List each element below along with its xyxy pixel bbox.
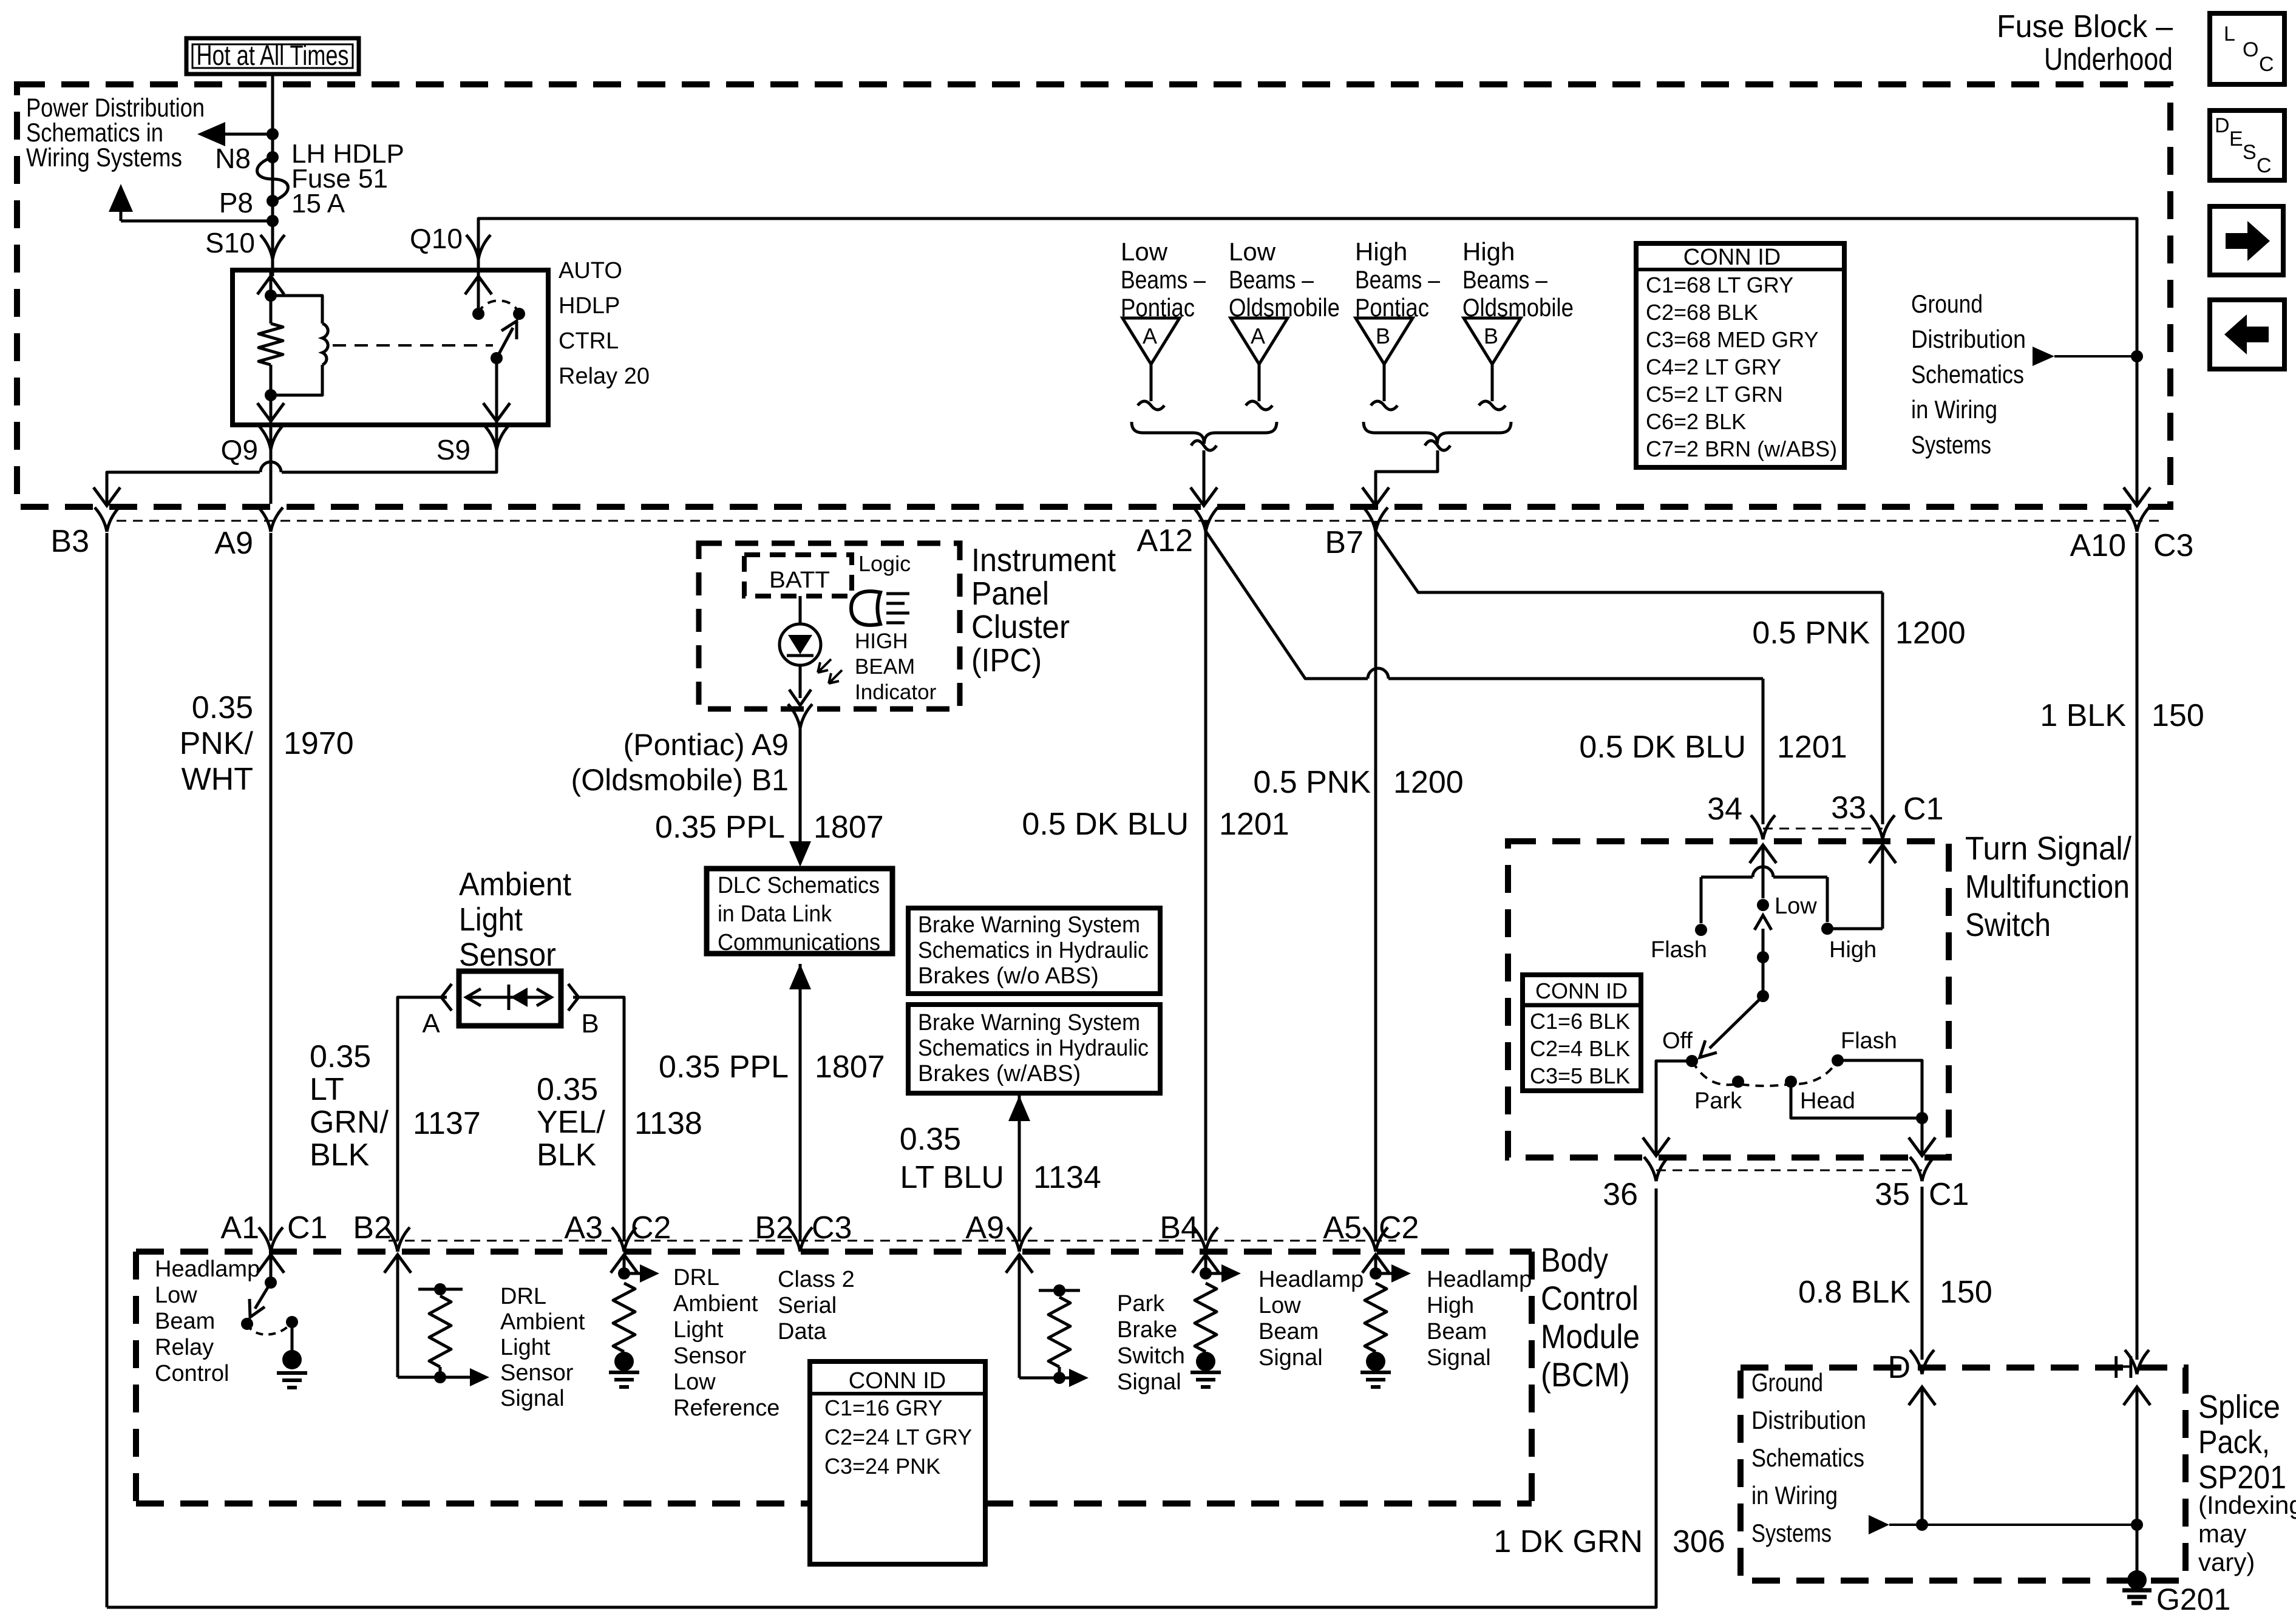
svg-text:1200: 1200 <box>1393 765 1464 800</box>
svg-text:SP201: SP201 <box>2198 1459 2286 1496</box>
svg-text:A: A <box>422 1009 440 1039</box>
svg-text:Sensor: Sensor <box>500 1360 574 1386</box>
svg-text:Distribution: Distribution <box>1911 325 2026 353</box>
svg-text:A: A <box>1251 324 1265 348</box>
svg-text:Oldsmobile: Oldsmobile <box>1229 293 1340 322</box>
svg-text:E: E <box>2229 127 2243 151</box>
svg-text:H: H <box>2112 1350 2135 1385</box>
svg-text:Pontiac: Pontiac <box>1121 293 1195 322</box>
svg-text:Signal: Signal <box>1117 1369 1181 1395</box>
svg-text:1138: 1138 <box>634 1106 702 1141</box>
svg-text:AUTO: AUTO <box>559 258 622 283</box>
svg-text:Systems: Systems <box>1751 1519 1832 1547</box>
svg-text:A: A <box>1143 324 1157 348</box>
svg-text:Switch: Switch <box>1965 907 2051 943</box>
svg-text:C4=2 LT GRY: C4=2 LT GRY <box>1646 354 1781 379</box>
svg-text:Beam: Beam <box>1258 1319 1319 1344</box>
svg-text:15 A: 15 A <box>291 189 345 219</box>
svg-text:P8: P8 <box>219 187 253 219</box>
svg-text:(Oldsmobile) B1: (Oldsmobile) B1 <box>571 763 789 797</box>
svg-text:CTRL: CTRL <box>559 328 619 354</box>
svg-text:N8: N8 <box>215 143 251 174</box>
svg-text:S10: S10 <box>205 227 255 259</box>
svg-text:HIGH: HIGH <box>855 629 908 653</box>
svg-text:Ambient: Ambient <box>500 1309 585 1335</box>
svg-text:A10: A10 <box>2070 528 2126 563</box>
svg-text:C1: C1 <box>1929 1177 1969 1212</box>
svg-text:Wiring Systems: Wiring Systems <box>26 143 182 172</box>
svg-text:C3: C3 <box>812 1210 852 1246</box>
svg-text:36: 36 <box>1603 1177 1638 1212</box>
svg-text:Beams –: Beams – <box>1462 265 1548 294</box>
svg-text:A9: A9 <box>965 1210 1004 1246</box>
svg-text:1200: 1200 <box>1895 615 1966 651</box>
svg-text:Ambient: Ambient <box>673 1291 758 1317</box>
svg-text:C1=16 GRY: C1=16 GRY <box>824 1395 942 1420</box>
svg-text:(BCM): (BCM) <box>1541 1355 1630 1394</box>
svg-text:Brake: Brake <box>1117 1317 1177 1343</box>
svg-text:Flash: Flash <box>1841 1028 1897 1054</box>
svg-text:1201: 1201 <box>1777 730 1847 765</box>
svg-text:1970: 1970 <box>284 726 354 761</box>
svg-text:BEAM: BEAM <box>855 655 915 679</box>
svg-text:Switch: Switch <box>1117 1343 1185 1369</box>
svg-text:Cluster: Cluster <box>971 609 1070 645</box>
svg-text:C2=68 BLK: C2=68 BLK <box>1646 300 1758 325</box>
svg-text:Beams –: Beams – <box>1355 265 1441 294</box>
svg-text:0.35: 0.35 <box>537 1072 598 1107</box>
svg-text:Instrument: Instrument <box>971 542 1116 578</box>
svg-text:High: High <box>1427 1293 1474 1318</box>
svg-text:0.35: 0.35 <box>310 1039 371 1074</box>
svg-text:High: High <box>1462 237 1515 266</box>
svg-text:Control: Control <box>155 1361 229 1386</box>
svg-text:33: 33 <box>1831 790 1866 825</box>
svg-text:Underhood: Underhood <box>2044 42 2173 77</box>
svg-text:Relay 20: Relay 20 <box>559 364 650 389</box>
svg-text:A12: A12 <box>1136 523 1193 558</box>
svg-text:Beam: Beam <box>155 1309 215 1334</box>
svg-text:A3: A3 <box>564 1210 603 1246</box>
svg-text:in Wiring: in Wiring <box>1911 395 1997 424</box>
svg-text:BLK: BLK <box>537 1137 597 1173</box>
svg-text:Schematics in Hydraulic: Schematics in Hydraulic <box>918 1036 1149 1061</box>
svg-text:Headlamp: Headlamp <box>1258 1267 1364 1292</box>
svg-text:0.5 DK BLU: 0.5 DK BLU <box>1579 730 1746 765</box>
svg-text:vary): vary) <box>2198 1548 2255 1576</box>
svg-text:Brakes (w/o ABS): Brakes (w/o ABS) <box>918 963 1099 989</box>
svg-text:LT BLU: LT BLU <box>900 1160 1005 1195</box>
svg-text:Control: Control <box>1541 1279 1639 1317</box>
svg-text:(Pontiac) A9: (Pontiac) A9 <box>623 728 789 762</box>
svg-text:Beams –: Beams – <box>1229 265 1314 294</box>
svg-text:C3=5 BLK: C3=5 BLK <box>1530 1063 1630 1088</box>
svg-text:HDLP: HDLP <box>559 293 620 319</box>
svg-text:A1: A1 <box>220 1210 259 1246</box>
svg-text:C7=2 BRN (w/ABS): C7=2 BRN (w/ABS) <box>1646 436 1837 461</box>
svg-text:Reference: Reference <box>673 1395 779 1421</box>
svg-text:Oldsmobile: Oldsmobile <box>1462 293 1574 322</box>
svg-text:Low: Low <box>1229 237 1276 266</box>
svg-text:C3: C3 <box>2153 528 2193 563</box>
svg-text:Light: Light <box>673 1317 724 1343</box>
svg-text:B4: B4 <box>1160 1210 1198 1246</box>
svg-text:Systems: Systems <box>1911 430 1991 459</box>
svg-text:C3=24 PNK: C3=24 PNK <box>824 1454 940 1479</box>
svg-text:Low: Low <box>673 1369 716 1395</box>
svg-text:Q9: Q9 <box>221 434 258 466</box>
svg-text:Splice: Splice <box>2198 1389 2280 1425</box>
svg-text:LT: LT <box>310 1072 344 1107</box>
svg-text:Data: Data <box>778 1319 827 1344</box>
svg-text:Q10: Q10 <box>410 223 463 254</box>
svg-text:DRL: DRL <box>500 1284 546 1309</box>
svg-text:High: High <box>1355 237 1407 266</box>
svg-text:Head: Head <box>1800 1088 1855 1114</box>
svg-text:Park: Park <box>1694 1088 1742 1114</box>
svg-text:Low: Low <box>1775 893 1817 919</box>
svg-text:306: 306 <box>1673 1524 1725 1559</box>
svg-text:High: High <box>1829 937 1877 963</box>
svg-text:Ambient: Ambient <box>459 866 571 903</box>
svg-text:Pontiac: Pontiac <box>1355 293 1429 322</box>
svg-text:CONN ID: CONN ID <box>849 1368 946 1394</box>
svg-text:GRN/: GRN/ <box>310 1105 389 1140</box>
svg-text:D: D <box>1887 1350 1911 1385</box>
svg-text:in Data Link: in Data Link <box>718 901 832 927</box>
svg-text:L: L <box>2224 22 2235 46</box>
svg-text:Signal: Signal <box>500 1386 565 1411</box>
svg-text:Indicator: Indicator <box>855 680 937 704</box>
svg-text:Ground: Ground <box>1751 1368 1823 1397</box>
svg-text:1 BLK: 1 BLK <box>2040 698 2126 733</box>
svg-text:A9: A9 <box>214 526 253 561</box>
svg-text:C1: C1 <box>1903 792 1943 827</box>
svg-text:Beam: Beam <box>1427 1319 1487 1344</box>
svg-text:BLK: BLK <box>310 1137 370 1173</box>
svg-text:BATT: BATT <box>769 568 830 593</box>
svg-text:DRL: DRL <box>673 1265 719 1290</box>
svg-text:Brakes (w/ABS): Brakes (w/ABS) <box>918 1061 1081 1086</box>
svg-text:1201: 1201 <box>1219 807 1289 842</box>
svg-text:Park: Park <box>1117 1291 1165 1317</box>
svg-text:0.5 DK BLU: 0.5 DK BLU <box>1022 807 1189 842</box>
svg-text:150: 150 <box>2152 698 2204 733</box>
svg-text:C1=6 BLK: C1=6 BLK <box>1530 1009 1630 1034</box>
svg-text:Sensor: Sensor <box>459 937 556 973</box>
svg-text:D: D <box>2215 114 2230 137</box>
svg-text:0.5 PNK: 0.5 PNK <box>1752 615 1870 651</box>
svg-text:C: C <box>2257 154 2272 177</box>
svg-text:0.35 PPL: 0.35 PPL <box>659 1049 789 1085</box>
svg-text:Schematics: Schematics <box>1751 1443 1864 1472</box>
svg-text:150: 150 <box>1940 1275 1992 1310</box>
svg-text:Serial: Serial <box>778 1293 837 1318</box>
svg-text:B3: B3 <box>50 524 89 559</box>
svg-text:Body: Body <box>1541 1241 1608 1279</box>
svg-text:1807: 1807 <box>813 810 884 845</box>
svg-text:A5: A5 <box>1323 1210 1362 1246</box>
svg-text:Schematics in Hydraulic: Schematics in Hydraulic <box>918 938 1149 963</box>
svg-text:C2=4 BLK: C2=4 BLK <box>1530 1036 1630 1061</box>
svg-text:B7: B7 <box>1325 525 1364 560</box>
svg-text:0.8 BLK: 0.8 BLK <box>1798 1275 1911 1310</box>
svg-text:1807: 1807 <box>815 1049 885 1085</box>
svg-text:S: S <box>2243 141 2257 164</box>
svg-text:34: 34 <box>1707 792 1742 827</box>
svg-text:Communications: Communications <box>718 930 880 955</box>
svg-text:(IPC): (IPC) <box>971 642 1042 679</box>
svg-text:CONN ID: CONN ID <box>1683 245 1781 270</box>
svg-text:B: B <box>1484 324 1498 348</box>
svg-text:C1=68 LT GRY: C1=68 LT GRY <box>1646 273 1793 297</box>
svg-text:Logic: Logic <box>858 551 911 576</box>
svg-text:Off: Off <box>1662 1028 1693 1054</box>
svg-text:CONN ID: CONN ID <box>1535 978 1628 1003</box>
svg-text:Low: Low <box>155 1283 197 1308</box>
svg-text:Relay: Relay <box>155 1335 214 1360</box>
svg-text:Low: Low <box>1258 1293 1301 1318</box>
svg-text:Fuse Block –: Fuse Block – <box>1997 9 2173 44</box>
svg-text:Beams –: Beams – <box>1121 265 1206 294</box>
svg-text:Ground: Ground <box>1911 290 1983 318</box>
svg-text:C2=24 LT GRY: C2=24 LT GRY <box>824 1425 972 1449</box>
svg-text:C5=2 LT GRN: C5=2 LT GRN <box>1646 382 1783 407</box>
svg-text:Signal: Signal <box>1427 1345 1491 1371</box>
svg-text:Panel: Panel <box>971 575 1049 612</box>
svg-text:PNK/: PNK/ <box>180 726 254 761</box>
svg-text:O: O <box>2243 38 2258 61</box>
svg-text:B: B <box>1376 324 1390 348</box>
svg-text:S9: S9 <box>436 434 470 466</box>
svg-text:DLC Schematics: DLC Schematics <box>718 873 880 898</box>
svg-text:Headlamp: Headlamp <box>1427 1267 1532 1292</box>
svg-text:Signal: Signal <box>1258 1345 1323 1371</box>
svg-text:0.35 PPL: 0.35 PPL <box>655 810 785 845</box>
svg-text:(Indexing: (Indexing <box>2198 1491 2296 1519</box>
svg-text:Turn Signal/: Turn Signal/ <box>1965 830 2131 867</box>
svg-text:Class 2: Class 2 <box>778 1267 855 1292</box>
svg-text:1137: 1137 <box>413 1106 481 1141</box>
svg-text:Sensor: Sensor <box>673 1343 747 1369</box>
svg-text:0.35: 0.35 <box>192 690 253 725</box>
svg-text:Schematics: Schematics <box>1911 360 2024 388</box>
svg-text:Hot at All Times: Hot at All Times <box>197 39 349 71</box>
svg-text:0.35: 0.35 <box>900 1122 961 1157</box>
svg-text:Brake Warning System: Brake Warning System <box>918 1010 1140 1036</box>
svg-text:C3=68 MED GRY: C3=68 MED GRY <box>1646 327 1818 352</box>
svg-text:may: may <box>2198 1519 2246 1548</box>
svg-text:C: C <box>2259 53 2274 76</box>
svg-text:WHT: WHT <box>182 762 253 797</box>
svg-text:35: 35 <box>1875 1177 1910 1212</box>
svg-text:0.5 PNK: 0.5 PNK <box>1253 765 1371 800</box>
svg-text:Light: Light <box>459 901 523 938</box>
svg-text:Distribution: Distribution <box>1751 1406 1866 1434</box>
svg-text:G201: G201 <box>2156 1582 2230 1616</box>
svg-text:Headlamp: Headlamp <box>155 1256 260 1282</box>
svg-text:Module: Module <box>1541 1317 1640 1355</box>
svg-text:1 DK GRN: 1 DK GRN <box>1493 1524 1643 1559</box>
svg-text:Pack,: Pack, <box>2198 1424 2270 1460</box>
svg-text:Brake Warning System: Brake Warning System <box>918 912 1140 938</box>
svg-text:YEL/: YEL/ <box>537 1105 605 1140</box>
svg-text:C1: C1 <box>287 1210 327 1246</box>
svg-text:Flash: Flash <box>1651 937 1707 963</box>
svg-text:B: B <box>581 1009 599 1039</box>
svg-text:in Wiring: in Wiring <box>1751 1481 1838 1510</box>
svg-text:C6=2 BLK: C6=2 BLK <box>1646 409 1746 434</box>
svg-text:1134: 1134 <box>1033 1160 1101 1195</box>
svg-text:Low: Low <box>1121 237 1168 266</box>
svg-text:Multifunction: Multifunction <box>1965 869 2130 905</box>
svg-text:Light: Light <box>500 1335 551 1360</box>
svg-text:C2: C2 <box>1379 1210 1419 1246</box>
